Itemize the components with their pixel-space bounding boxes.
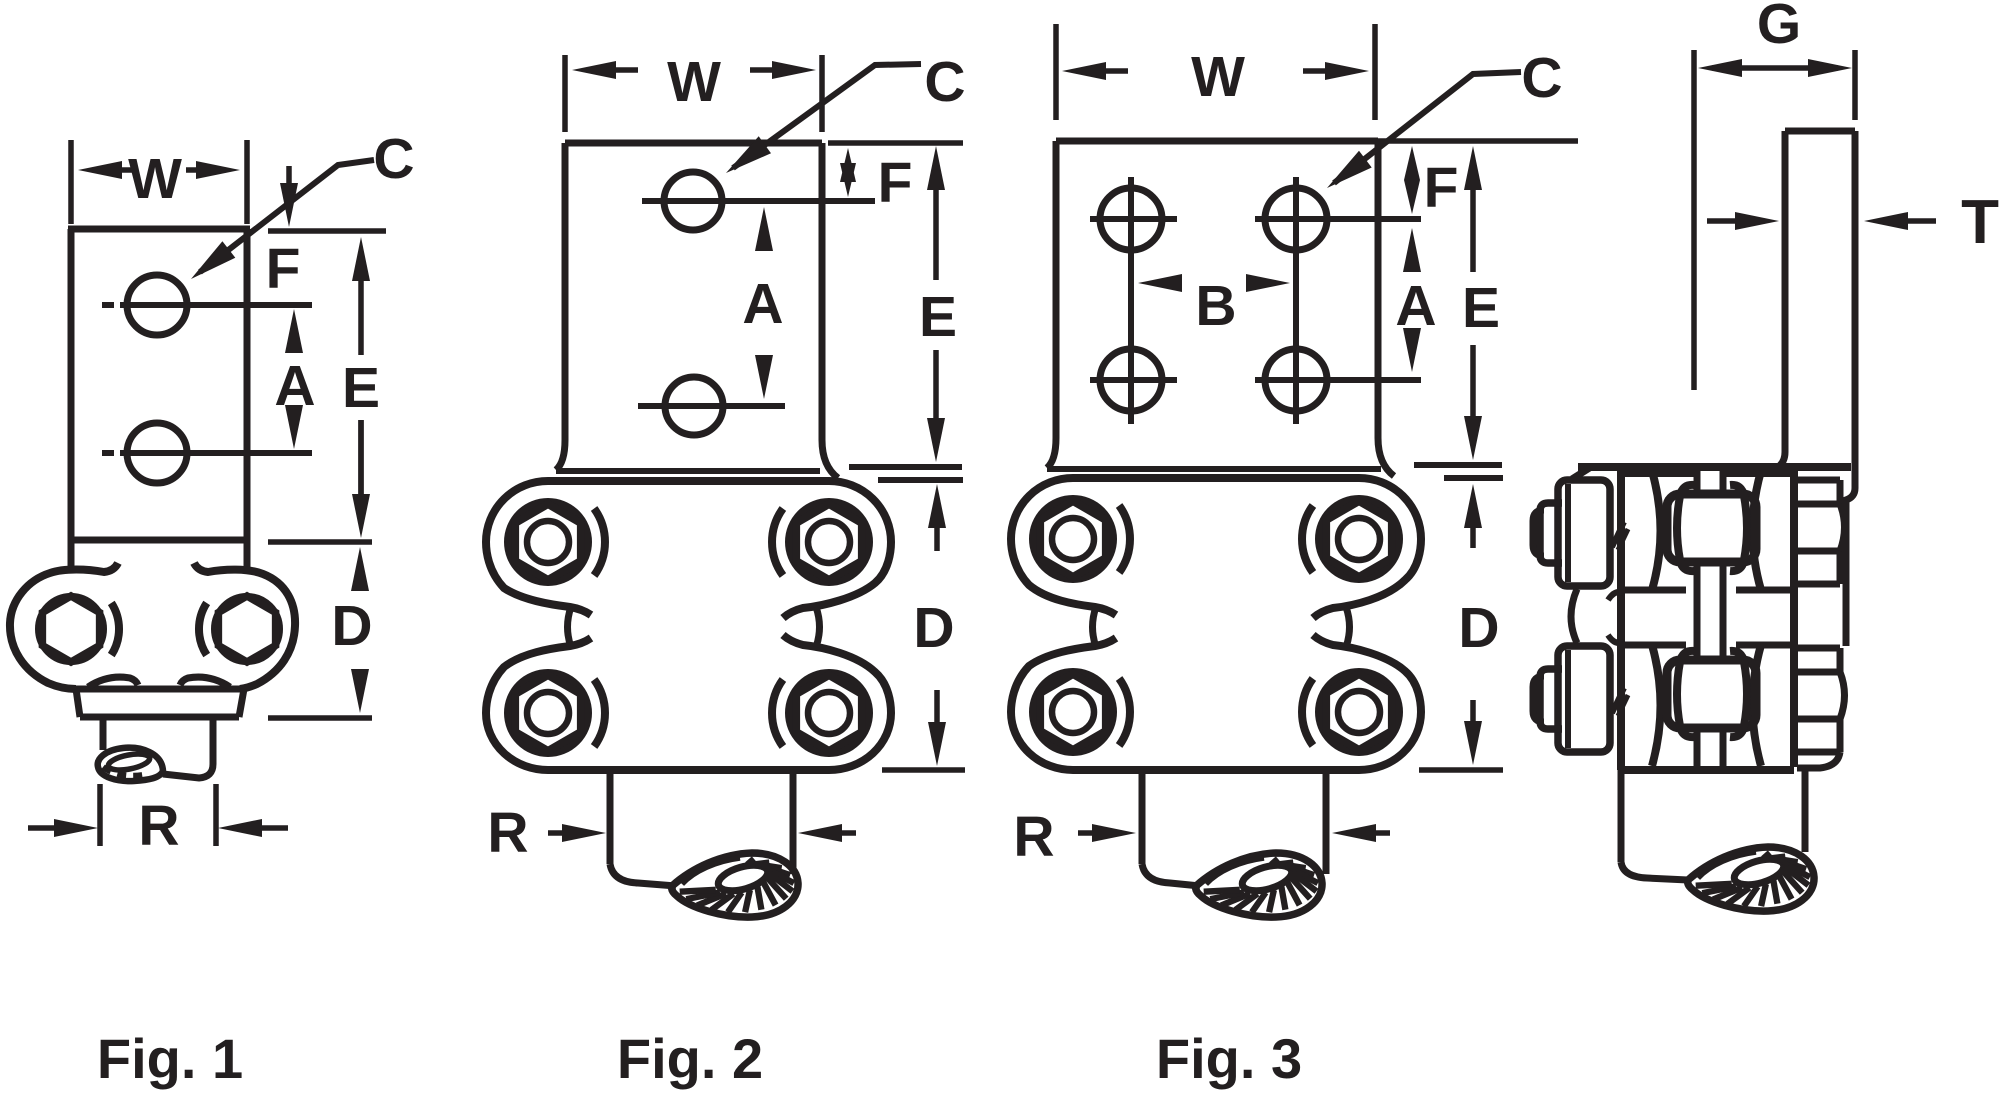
fig1 D bottom reference line [268,715,372,721]
fig3 top edge extension line [1378,138,1578,144]
svg-text:C: C [373,127,414,191]
fig2 dimension D [934,522,940,551]
fig3 D bottom reference line [1419,767,1503,773]
side view upper conductor section [1667,494,1756,562]
fig2 tab plate outline [565,140,822,147]
side view left jaw bar [1617,467,1625,770]
fig1 clamp bottom ear right [180,677,230,687]
fig2 hole lower [665,377,723,435]
fig1 hole upper [127,275,187,335]
svg-text:E: E [919,285,957,349]
fig1 tab stubs into clamp [68,540,75,570]
fig3 tab plate outline [1056,138,1378,145]
svg-text:G: G [1757,0,1801,56]
fig1 bolt right arc [199,603,207,655]
svg-text:F: F [266,237,301,301]
fig2 hole upper [664,172,722,230]
side view stem and conductor loop [1618,770,1625,862]
fig2 stem and conductor loop [607,770,614,864]
fig2 dimension E [933,184,939,280]
side view right jaw bar [1790,467,1798,767]
svg-text:W: W [1191,45,1245,109]
fig3 crosshair verticals [1128,177,1134,424]
svg-text:A: A [1395,274,1436,338]
svg-text:A: A [742,272,783,336]
fig1 hole lower [127,423,187,483]
side view clamp top edge [1578,463,1851,471]
fig2 dimension R [548,830,568,836]
svg-text:Fig. 2: Fig. 2 [617,1027,763,1090]
svg-text:E: E [342,356,380,420]
fig1 dimension A [291,347,297,353]
svg-text:Fig. 1: Fig. 1 [97,1027,243,1090]
side view waist band lines [1621,587,1686,594]
side view upper nut [1797,477,1840,484]
side view right boundary [1846,488,1855,646]
fig1 bolt left arc [111,603,119,655]
fig1 bolt right [215,597,280,662]
fig3 dimension E [1470,184,1476,272]
fig3 dimension D [1470,522,1476,548]
fig1 conductor loop [98,748,163,781]
svg-text:Fig. 3: Fig. 3 [1156,1027,1302,1090]
fig1 dimension D [357,585,363,590]
fig2 dimension F [845,173,851,179]
svg-text:C: C [1521,46,1562,110]
fig1 hole lower centerline [102,450,114,456]
svg-text:W: W [667,50,721,114]
fig1 transition block [76,689,244,717]
fig1 clamp bottom ear left [88,677,138,687]
side view dimension T [1707,218,1741,224]
fig1 hole upper centerline [102,302,114,308]
fig3 dimension F [1409,171,1415,177]
svg-text:D: D [331,594,372,658]
fig3 stem and conductor loop [1139,770,1146,864]
fig3 label C leader [1334,72,1521,183]
fig1 tab plate outline [68,229,75,540]
fig1 dimension F [286,166,292,189]
side view top plate inner line [1621,471,1694,477]
fig1 dimension W [68,140,74,224]
side view lower nut [1797,645,1840,652]
fig3 crosshair horizontals [1090,216,1177,222]
fig1 stem [100,717,107,750]
svg-text:E: E [1462,276,1500,340]
side view lower bolt head [1558,646,1610,752]
fig3 flare ledge lines [1047,466,1381,472]
svg-text:R: R [138,794,179,858]
svg-text:D: D [1458,596,1499,660]
fig2 ledge break marks [849,464,962,470]
fig2 dimension A [761,245,767,249]
side view center links [1694,467,1701,492]
fig2 dimension W [562,55,568,132]
side view dimension G [1691,50,1697,390]
side view left waist [1571,589,1577,643]
svg-text:A: A [274,354,315,418]
svg-text:D: D [913,596,954,660]
fig2 label C leader [733,64,921,168]
fig2 clamp body [486,481,891,618]
fig3 dimension A [1409,266,1415,268]
fig1 clamp body outline left [10,563,118,689]
fig1 E bottom reference line [268,539,372,545]
side view clamp bottom edge [1621,766,1794,774]
fig2 top edge extension line [828,140,963,146]
svg-text:T: T [1961,188,1999,257]
fig3 dimension W [1053,24,1059,120]
fig3 dimension B [1174,280,1176,286]
fig1 clamp bottom edge [74,686,244,693]
fig1 top edge extension line [268,228,386,234]
fig2 hole lower centerline [638,403,785,409]
fig3 holes with crosshairs [1100,188,1162,250]
fig2 D bottom reference line [882,767,965,773]
svg-text:F: F [1424,156,1459,220]
svg-text:C: C [924,50,965,114]
svg-text:R: R [1013,805,1054,869]
fig3 dimension R [1078,830,1098,836]
svg-text:F: F [878,151,913,215]
side view tab bar [1785,128,1855,135]
svg-text:B: B [1195,274,1236,338]
fig1 clamp body outline right [194,563,295,689]
side view upper bolt head [1558,480,1610,586]
fig1 dimension R [97,784,103,846]
svg-text:W: W [128,147,182,211]
svg-text:R: R [487,801,528,865]
fig1 bolt left [39,597,104,662]
fig2 flare ledge lines [556,468,820,474]
side view lower conductor section [1667,660,1756,728]
fig1 dimension E [358,275,364,355]
fig3 clamp body [1011,478,1421,618]
fig1 label C leader [200,160,374,272]
fig3 ledge break marks [1414,462,1502,468]
fig2 hole upper centerline [642,198,875,204]
